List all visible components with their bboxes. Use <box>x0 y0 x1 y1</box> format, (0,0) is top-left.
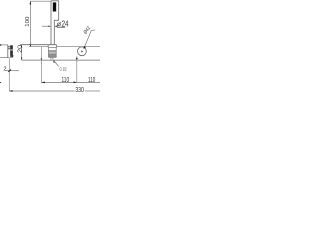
dim 330 line <box>9 90 75 92</box>
wall line B right seg <box>57 46 101 48</box>
side view speckles <box>8 46 10 49</box>
dim 20 bottom arrow <box>21 58 22 61</box>
svg-text:330: 330 <box>75 85 84 94</box>
side view bracket bar <box>10 45 12 57</box>
dim 100 bottom arrow <box>30 44 32 47</box>
neck right edge <box>53 20 55 44</box>
ext line x41.4 <box>40 47 42 83</box>
svg-text:100: 100 <box>25 17 31 27</box>
wall line A <box>20 44 56 46</box>
dim 100 vertical line <box>29 1 31 47</box>
side view: wall block <box>0 44 1 46</box>
G 1/2 leader line <box>54 61 59 67</box>
dim 2 tick <box>8 70 11 72</box>
dim 330 left arrow <box>9 90 13 92</box>
text dia 24 <box>57 22 61 27</box>
svg-text:110: 110 <box>88 75 95 84</box>
dim 20 vertical line <box>21 45 23 60</box>
dim 100 top extension <box>30 0 51 2</box>
svg-text:Ø42: Ø42 <box>83 25 93 35</box>
dim 100 top arrow <box>30 1 32 4</box>
handle lever (black) <box>53 2 56 11</box>
svg-text:24: 24 <box>62 20 69 29</box>
svg-text:20: 20 <box>18 45 24 53</box>
diagonal leader arrow <box>84 46 86 49</box>
diagonal leader to circle <box>84 30 96 49</box>
cropped arrow at left edge <box>0 82 2 83</box>
down arrow at wall on x41.4 <box>41 58 43 60</box>
side view back vertical <box>7 45 9 58</box>
dim 2 vertical <box>8 58 10 91</box>
dim 110 line <box>41 81 100 83</box>
column body (wide upper part) <box>51 1 59 45</box>
dim 20 top arrow <box>21 45 22 48</box>
nozzle tip <box>51 57 53 59</box>
side view lower dash <box>12 55 14 57</box>
svg-text:G 1/2: G 1/2 <box>60 67 68 72</box>
dia24 shelf line <box>57 26 65 28</box>
side view bottom line <box>0 57 9 59</box>
svg-text:110: 110 <box>62 75 70 84</box>
circle center cross <box>81 50 83 52</box>
dim 2 horizontal <box>6 70 19 72</box>
circle (flange front) <box>78 47 87 56</box>
side view top line <box>0 44 8 46</box>
ext line x76.8 lower <box>76 60 78 83</box>
nozzle body <box>48 45 56 48</box>
nozzle knurled ring (striped) <box>49 48 57 58</box>
wall line C <box>22 59 101 61</box>
dia24 leader left arrow <box>48 26 51 27</box>
wall line B left seg <box>29 46 48 48</box>
dim 110 left arrow <box>41 82 45 84</box>
ext line x76.8 upper with down arrow <box>76 56 78 60</box>
dim 110 middle arrows <box>74 81 77 83</box>
svg-text:2: 2 <box>3 67 6 73</box>
G 1/2 leader arrow <box>53 60 55 63</box>
dia24 leader right arrow <box>54 26 57 27</box>
